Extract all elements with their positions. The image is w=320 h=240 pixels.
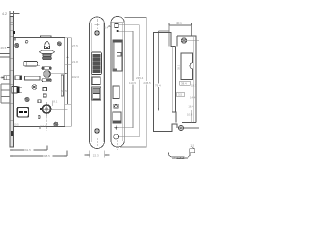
dim 40.1 top right [169, 23, 192, 47]
strip B top square [115, 24, 119, 28]
dimension 79.4 line [158, 31, 169, 111]
faceplate lower dark mark [11, 131, 13, 136]
deadbolt [12, 87, 22, 94]
lock edge view (strip B) [111, 17, 124, 148]
right dim line x67 [65, 38, 71, 105]
connector apex line [120, 18, 146, 148]
gear wheel upper [32, 85, 37, 90]
boxed label 38.4 [180, 81, 190, 85]
strike plate body [177, 36, 196, 123]
cylinder box [17, 108, 28, 118]
faceplate (side view, left) [10, 17, 13, 148]
label 91.5 [25, 148, 34, 152]
strip B top dot [117, 30, 119, 32]
svg-text:16.4: 16.4 [188, 104, 194, 108]
follower centerline [46, 116, 48, 131]
hole top [25, 41, 28, 44]
screw post bottom-right [54, 122, 58, 126]
strip B cross dot [114, 125, 119, 130]
case right-edge tab [61, 75, 63, 96]
strip A centerline cross [95, 19, 100, 29]
strip A latch window [92, 52, 102, 75]
strip A bottom centerline [96, 138, 98, 146]
svg-text:22.3: 22.3 [93, 153, 99, 157]
lock case outline [13, 38, 64, 127]
strip B bottom centerline [116, 140, 118, 150]
guide bar [25, 76, 41, 80]
strip B cylinder detail [114, 104, 119, 108]
strike right inner segment [190, 110, 192, 123]
faceplate weld mark [13, 31, 15, 34]
label 235.4 [136, 76, 145, 80]
small square pin A [43, 87, 46, 90]
strike flange step [172, 112, 176, 123]
small square pin C [38, 100, 41, 103]
svg-text:10.8: 10.8 [187, 113, 193, 117]
svg-text:98.5: 98.5 [44, 154, 50, 158]
label 98.5 [44, 154, 53, 158]
svg-text:29.5: 29.5 [1, 46, 7, 50]
small stop block [15, 76, 22, 80]
svg-text:79.4: 79.4 [155, 84, 161, 88]
svg-text:38.4: 38.4 [181, 82, 187, 86]
svg-text:6.4: 6.4 [104, 26, 108, 30]
svg-text:14.4: 14.4 [190, 96, 196, 100]
follower nut [40, 101, 68, 116]
small square pin B [43, 94, 46, 97]
svg-text:2.5: 2.5 [191, 144, 195, 147]
svg-text:20.5.5: 20.5.5 [40, 125, 47, 127]
strike flange line [175, 47, 177, 113]
auxiliary latch (crown) [40, 36, 55, 60]
svg-text:18.5: 18.5 [191, 83, 197, 87]
strike top screw [181, 38, 199, 43]
strike bottom screw [178, 125, 199, 130]
left dim line a [0, 53, 10, 55]
svg-text:35.1: 35.1 [176, 64, 180, 70]
svg-text:62.5: 62.5 [61, 89, 67, 93]
label 6.4 with arrow [104, 25, 111, 29]
guide roller [44, 71, 68, 78]
strip B lower window [113, 112, 121, 123]
faceplate front view (strip A) [90, 17, 105, 149]
label 245.5 [143, 81, 152, 85]
strike frame outline [154, 33, 178, 132]
left dim line b [0, 56, 10, 58]
bottom edge tick [39, 127, 41, 130]
screw post middle [25, 97, 30, 102]
strip A deadbolt window [92, 87, 101, 100]
svg-text:10.5: 10.5 [14, 123, 20, 127]
svg-text:91.5: 91.5 [25, 148, 31, 152]
bottom dim 91.5 [10, 146, 47, 151]
svg-text:110.5: 110.5 [129, 81, 136, 85]
svg-text:27.5: 27.5 [72, 44, 78, 48]
strike flange inner line [171, 47, 173, 113]
connector square line [118, 25, 139, 137]
label 79.4 [155, 84, 162, 88]
svg-text:4.2: 4.2 [2, 12, 7, 16]
svg-text:8.1: 8.1 [53, 100, 57, 104]
connector dot line [119, 31, 133, 128]
left stacked extension cells [1, 84, 10, 103]
strip A middle window [92, 77, 100, 85]
strip A bottom screw [94, 128, 99, 133]
screw post top-right [57, 42, 61, 46]
strip B latch channel [113, 40, 122, 71]
strip A top screw [94, 30, 99, 35]
svg-text:40.1: 40.1 [176, 21, 182, 25]
label 110.5 [129, 81, 138, 85]
boxed label 3.5 [177, 92, 184, 97]
deadbolt front stub [1, 76, 10, 80]
svg-text:235.4: 235.4 [136, 76, 144, 80]
svg-text:102.6: 102.6 [72, 75, 80, 79]
svg-text:245.5: 245.5 [143, 81, 151, 85]
svg-text:21.8: 21.8 [72, 60, 78, 64]
bottom dim 98.5 [10, 151, 67, 157]
hole lower [38, 116, 40, 119]
svg-text:3.5: 3.5 [178, 93, 182, 97]
left dim line 29.5 [7, 47, 10, 49]
strip B bottom screw hole [114, 134, 119, 139]
right dim line x71 [65, 38, 71, 127]
dimension 4.2 faceplate thickness [10, 11, 20, 16]
strike latch cutout [181, 53, 193, 80]
latch bolt body [24, 61, 40, 66]
screw post top-left [15, 43, 19, 47]
latch spring pill [42, 67, 51, 70]
strip B deadbolt window [113, 86, 119, 99]
dim 22.3 under strip A [85, 151, 110, 158]
clip part bottom right [168, 146, 194, 159]
lower pill [42, 79, 51, 82]
